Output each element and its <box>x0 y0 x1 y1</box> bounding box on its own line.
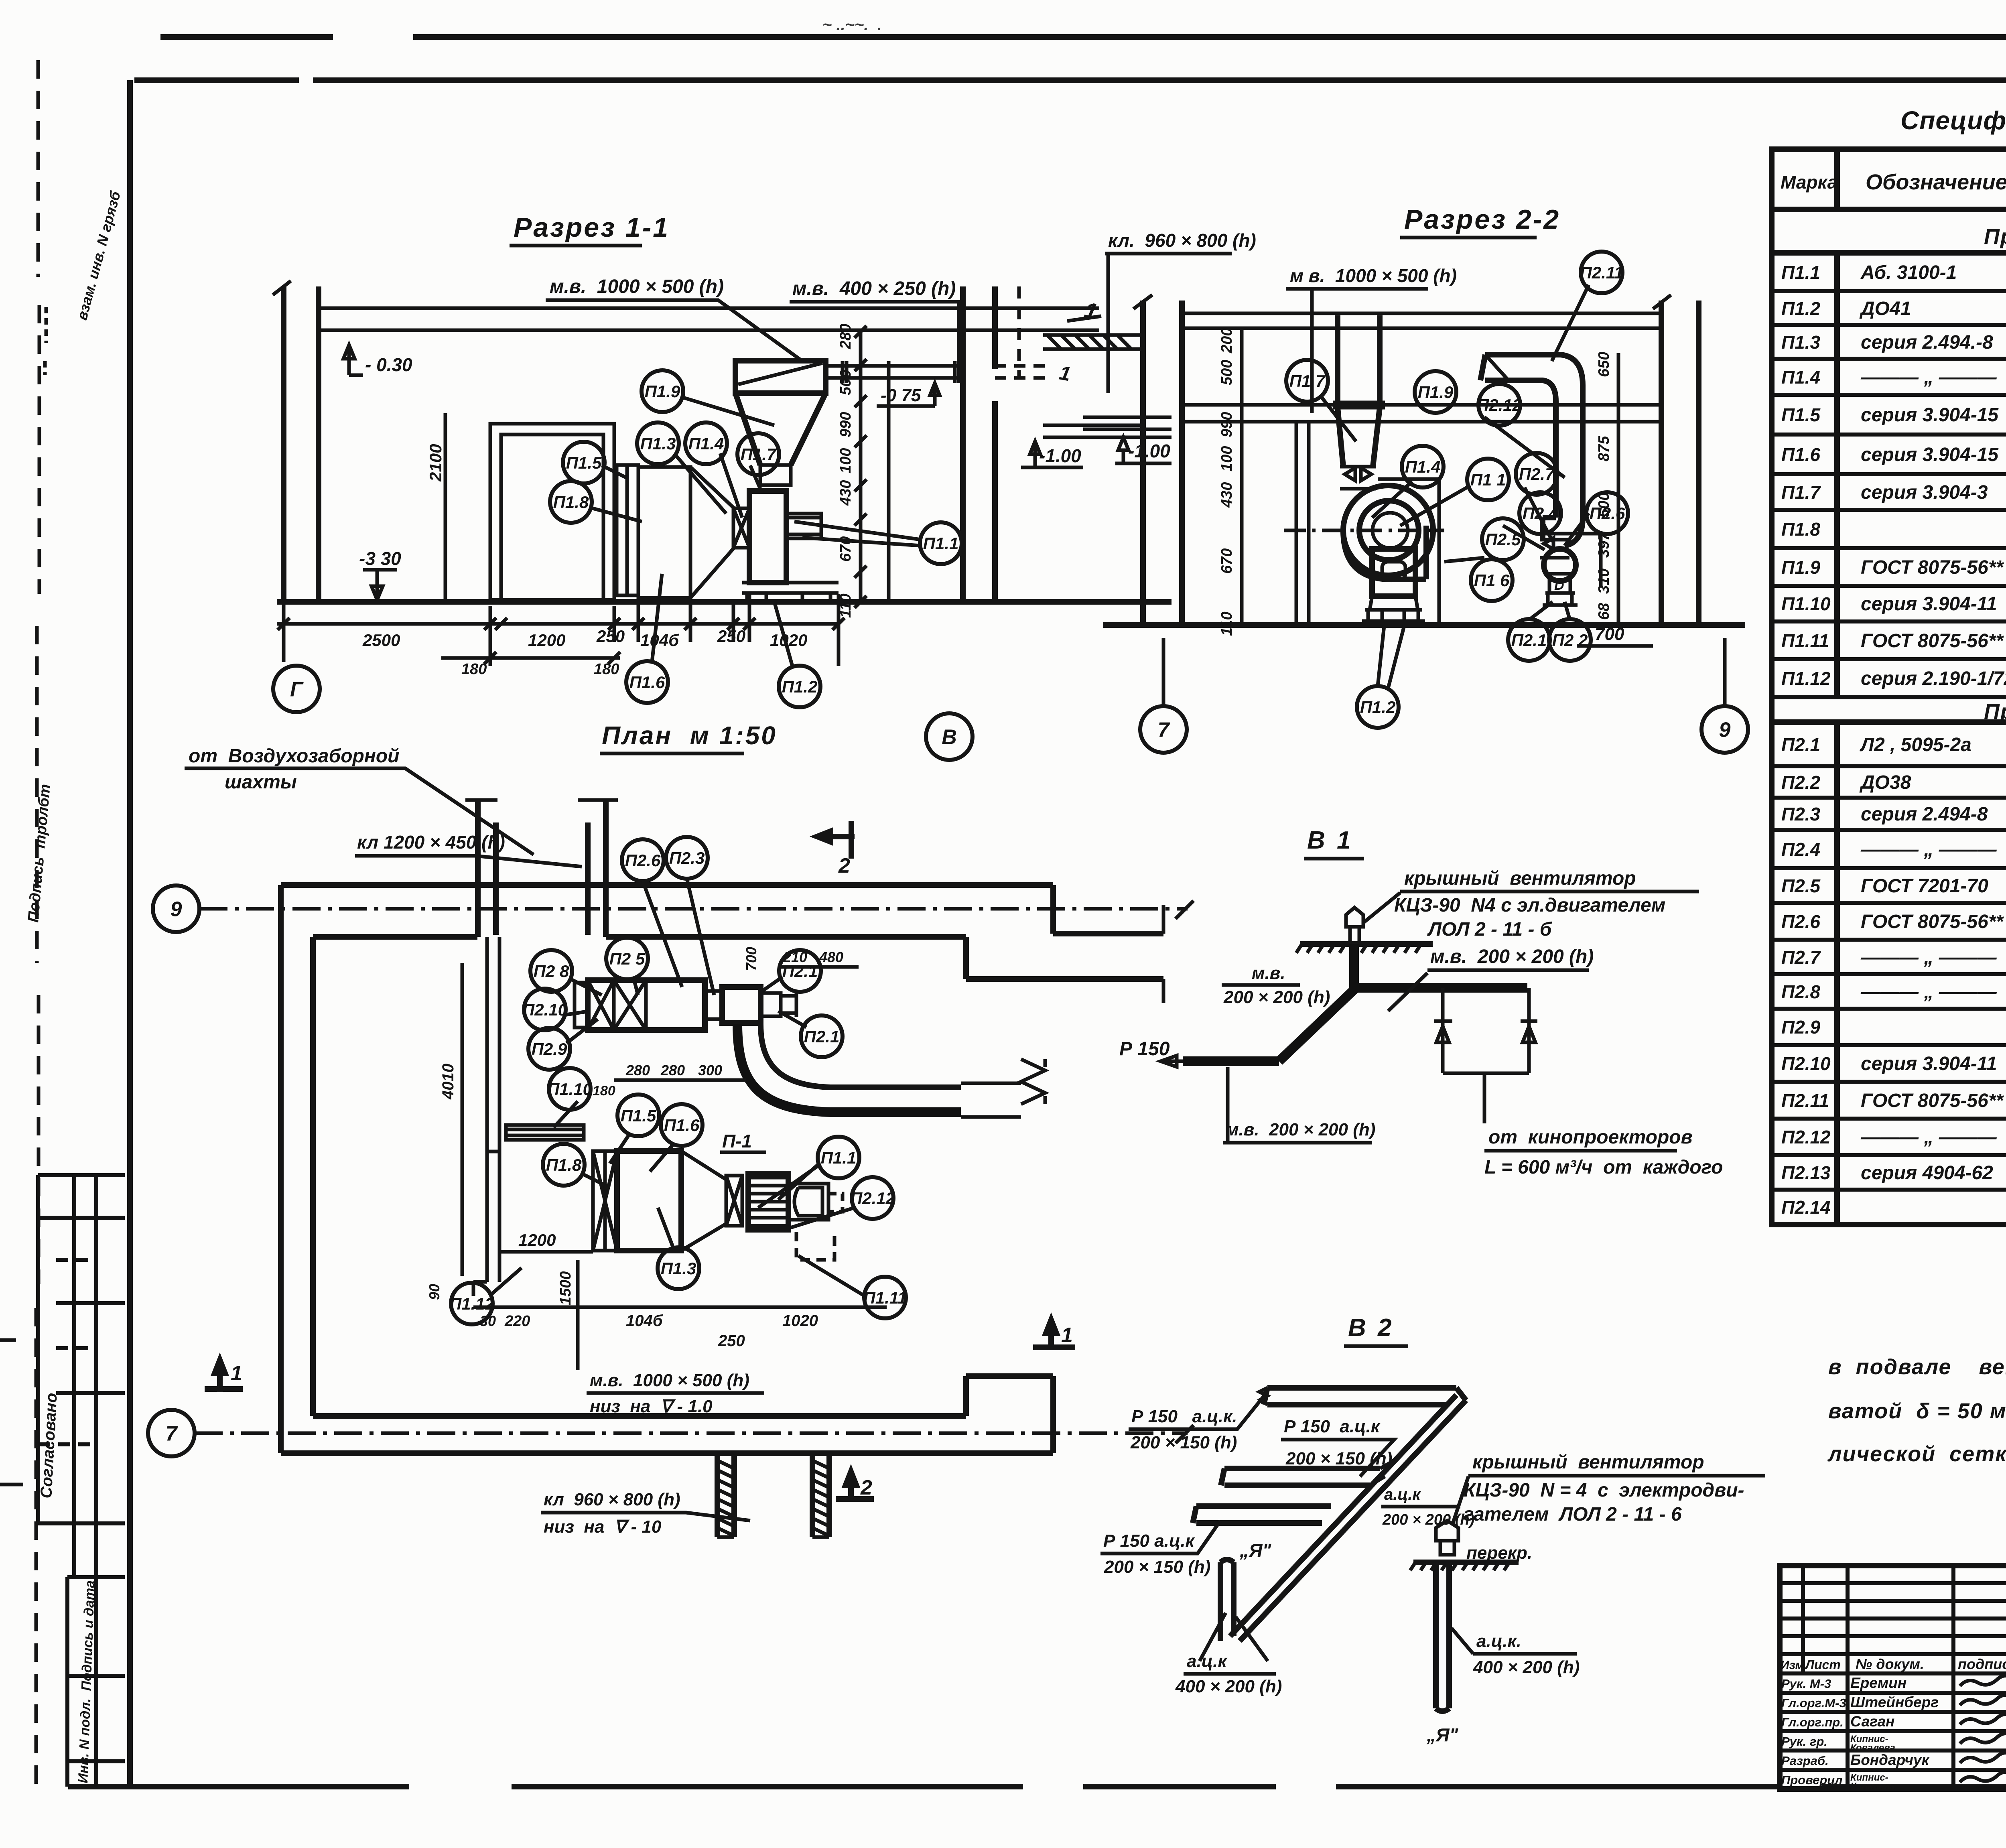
svg-text:700: 700 <box>743 947 759 971</box>
svg-text:——— „ ———: ——— „ ——— <box>1860 981 1997 1003</box>
svg-text:П1.9: П1.9 <box>645 382 680 401</box>
svg-text:280: 280 <box>837 324 854 349</box>
svg-text:210: 210 <box>783 949 807 965</box>
svg-text:300: 300 <box>698 1062 722 1078</box>
svg-text:220: 220 <box>504 1313 530 1330</box>
svg-text:кл. 960 × 800 (h): кл. 960 × 800 (h) <box>1108 230 1256 251</box>
svg-text:П1.2: П1.2 <box>782 677 818 696</box>
svg-text:400 × 200 (h): 400 × 200 (h) <box>1473 1657 1580 1677</box>
svg-text:П1.1: П1.1 <box>1781 262 1820 283</box>
svg-text:1020: 1020 <box>782 1312 818 1330</box>
svg-text:П2.12: П2.12 <box>850 1189 895 1208</box>
svg-text:430: 430 <box>1218 482 1235 508</box>
svg-text:200 × 150 (h): 200 × 150 (h) <box>1130 1433 1237 1452</box>
svg-text:990: 990 <box>837 412 854 437</box>
svg-text:П1.3: П1.3 <box>661 1259 696 1278</box>
svg-text:„Я": „Я" <box>1239 1540 1272 1561</box>
svg-text:лической сетке штукатуркой: лической сетке штукатуркой АЦП. <box>1827 1442 2006 1466</box>
svg-text:серия 3.904-11: серия 3.904-11 <box>1861 593 1997 615</box>
svg-text:кл 1200 × 450 (h): кл 1200 × 450 (h) <box>357 832 505 853</box>
svg-text:200 × 200 (h): 200 × 200 (h) <box>1223 987 1330 1007</box>
svg-text:П1.1: П1.1 <box>923 534 959 553</box>
svg-text:П2 5: П2 5 <box>609 949 645 968</box>
svg-text:П-1: П-1 <box>722 1131 752 1151</box>
svg-text:Г: Г <box>290 678 304 701</box>
svg-text:П2.11: П2.11 <box>1580 263 1624 282</box>
svg-text:в подвале венткамера об: в подвале венткамера оббивается минераль… <box>1828 1355 2006 1379</box>
svg-text:П1.6: П1.6 <box>664 1116 700 1135</box>
svg-text:Подпись тролбт: Подпись тролбт <box>25 784 54 923</box>
svg-text:П1.11: П1.11 <box>1781 630 1829 651</box>
svg-text:Саган: Саган <box>1850 1713 1894 1730</box>
svg-text:Ковалева: Ковалева <box>1850 1781 1895 1792</box>
svg-text:а.ц.к: а.ц.к <box>1384 1486 1421 1503</box>
svg-text:П1.5: П1.5 <box>1781 404 1821 425</box>
svg-text:180: 180 <box>593 1083 615 1099</box>
svg-text:250: 250 <box>718 1332 745 1350</box>
svg-text:9: 9 <box>171 898 182 921</box>
svg-text:480: 480 <box>819 949 843 965</box>
svg-text:500: 500 <box>1218 360 1235 385</box>
svg-text:670: 670 <box>1218 548 1235 574</box>
svg-text:250: 250 <box>596 627 625 646</box>
svg-text:200 × 150 (h): 200 × 150 (h) <box>1104 1557 1210 1577</box>
svg-text:Бондарчук: Бондарчук <box>1850 1752 1930 1768</box>
svg-text:П1.9: П1.9 <box>1418 383 1454 402</box>
svg-text:100: 100 <box>1218 446 1235 471</box>
svg-text:П1.6: П1.6 <box>629 673 665 692</box>
svg-text:Лист: Лист <box>1805 1657 1841 1672</box>
svg-text:1200: 1200 <box>518 1231 556 1249</box>
svg-text:П1.12: П1.12 <box>1781 668 1831 689</box>
svg-text:В: В <box>942 726 957 749</box>
svg-text:П1.12: П1.12 <box>449 1294 494 1313</box>
svg-text:1: 1 <box>231 1362 242 1385</box>
svg-text:Аб. 3100-1: Аб. 3100-1 <box>1860 262 1957 283</box>
svg-text:П1.5: П1.5 <box>621 1106 656 1125</box>
svg-text:КЦЗ-90 N = 4 с электродви-: КЦЗ-90 N = 4 с электродви- <box>1464 1480 1744 1501</box>
svg-text:430: 430 <box>837 480 854 506</box>
svg-text:104б: 104б <box>626 1312 663 1330</box>
svg-text:1: 1 <box>1061 1324 1073 1347</box>
svg-text:200 × 200 (h): 200 × 200 (h) <box>1382 1511 1474 1528</box>
svg-text:П2.12: П2.12 <box>1781 1127 1831 1147</box>
svg-text:ЛОЛ 2 - 11 - б: ЛОЛ 2 - 11 - б <box>1427 919 1552 940</box>
svg-text:310: 310 <box>1596 569 1612 594</box>
svg-text:П2.13: П2.13 <box>1781 1162 1831 1183</box>
svg-text:П2.14: П2.14 <box>1781 1197 1831 1218</box>
svg-text:от кинопроекторов: от кинопроекторов <box>1488 1127 1693 1148</box>
svg-text:- 0.30: - 0.30 <box>365 354 412 375</box>
svg-text:Обозначение: Обозначение <box>1866 170 2006 194</box>
svg-text:П1.10: П1.10 <box>547 1080 592 1099</box>
svg-text:серия 2.494.-8: серия 2.494.-8 <box>1861 332 1993 353</box>
svg-text:Марка: Марка <box>1781 172 1837 193</box>
svg-text:104б: 104б <box>640 631 679 650</box>
svg-text:7: 7 <box>1158 719 1170 742</box>
svg-text:ГОСТ 8075-56**: ГОСТ 8075-56** <box>1861 630 2004 652</box>
svg-text:Рук. гр.: Рук. гр. <box>1781 1734 1827 1748</box>
svg-text:П2.5: П2.5 <box>1781 875 1821 896</box>
svg-text:700: 700 <box>1595 624 1624 644</box>
svg-text:П1.5: П1.5 <box>566 453 602 472</box>
svg-text:280: 280 <box>660 1062 685 1078</box>
svg-text:кл 960 × 800 (h): кл 960 × 800 (h) <box>544 1490 680 1509</box>
svg-text:серия 3.904-15: серия 3.904-15 <box>1861 444 1999 465</box>
svg-text:ГОСТ 8075-56**: ГОСТ 8075-56** <box>1861 911 2004 932</box>
svg-text:1500: 1500 <box>557 1271 574 1305</box>
svg-text:м.в. 200 × 200 (h): м.в. 200 × 200 (h) <box>1226 1120 1375 1139</box>
svg-text:ДО41: ДО41 <box>1859 298 1911 319</box>
svg-text:Разрез 1-1: Разрез 1-1 <box>514 212 670 243</box>
svg-text:280: 280 <box>625 1062 650 1078</box>
svg-text:П2.1: П2.1 <box>1511 631 1547 650</box>
svg-text:400 × 200 (h): 400 × 200 (h) <box>1175 1677 1282 1696</box>
svg-text:гателем ЛОЛ 2 - 11 - 6: гателем ЛОЛ 2 - 11 - 6 <box>1464 1504 1682 1525</box>
svg-text:500: 500 <box>837 370 854 395</box>
svg-text:П1.7: П1.7 <box>741 445 777 464</box>
svg-text:Проверил: Проверил <box>1781 1773 1843 1787</box>
svg-text:П1.3: П1.3 <box>640 434 676 453</box>
svg-text:шахты: шахты <box>225 772 297 793</box>
svg-text:П2.1: П2.1 <box>804 1027 840 1046</box>
svg-text:——— „ ———: ——— „ ——— <box>1860 367 1997 388</box>
svg-text:П2.6: П2.6 <box>1781 911 1820 932</box>
svg-text:П2.2: П2.2 <box>1781 772 1820 793</box>
svg-text:П2.6: П2.6 <box>1590 504 1625 523</box>
svg-text:9: 9 <box>1719 719 1731 742</box>
svg-text:Гл.орг.М-3: Гл.орг.М-3 <box>1781 1696 1846 1710</box>
svg-text:П1.8: П1.8 <box>1781 519 1820 540</box>
svg-text:D: D <box>1554 578 1564 593</box>
svg-text:2: 2 <box>860 1476 872 1499</box>
svg-text:П2.12: П2.12 <box>1477 396 1522 414</box>
svg-text:Изм.: Изм. <box>1781 1659 1807 1672</box>
svg-text:200 × 150 (h): 200 × 150 (h) <box>1285 1449 1392 1468</box>
svg-text:П2.10: П2.10 <box>1781 1053 1831 1074</box>
svg-text:а.ц.к: а.ц.к <box>1187 1651 1228 1671</box>
svg-text:110: 110 <box>1218 611 1235 636</box>
svg-text:Приточная система П2: Приточная система П2 <box>1984 700 2006 724</box>
svg-text:П2.9: П2.9 <box>532 1040 567 1058</box>
svg-text:крышный вентилятор: крышный вентилятор <box>1404 868 1636 889</box>
svg-text:а.ц.к.: а.ц.к. <box>1476 1631 1521 1651</box>
svg-text:П2 8: П2 8 <box>534 962 569 981</box>
svg-text:П1.4: П1.4 <box>688 434 724 453</box>
svg-text:КЦЗ-90 N4 с эл.двигателем: КЦЗ-90 N4 с эл.двигателем <box>1394 895 1665 916</box>
svg-text:~ ..~~. .: ~ ..~~. . <box>822 16 882 34</box>
svg-text:подпись: подпись <box>1958 1656 2006 1672</box>
svg-text:990: 990 <box>1218 412 1235 437</box>
svg-text:200: 200 <box>1218 328 1235 353</box>
svg-text:-0 75: -0 75 <box>881 386 921 405</box>
svg-text:-3 30: -3 30 <box>359 548 401 569</box>
svg-text:ГОСТ 8075-56**: ГОСТ 8075-56** <box>1861 1090 2004 1111</box>
svg-text:П1.7: П1.7 <box>1781 482 1821 503</box>
svg-text:П1.1: П1.1 <box>821 1148 857 1167</box>
svg-text:П2.7: П2.7 <box>1781 947 1821 968</box>
svg-text:м.в. 1000 × 500 (h): м.в. 1000 × 500 (h) <box>590 1371 749 1390</box>
svg-text:100: 100 <box>837 448 854 473</box>
svg-text:180: 180 <box>594 661 619 678</box>
svg-text:Еремин: Еремин <box>1850 1675 1907 1691</box>
svg-text:Штейнберг: Штейнберг <box>1850 1694 1939 1710</box>
svg-text:взам. инв. N грязб: взам. инв. N грязб <box>73 189 124 322</box>
svg-text:серия 2.494-8: серия 2.494-8 <box>1861 804 1988 825</box>
svg-text:П2.3: П2.3 <box>669 849 705 867</box>
svg-text:П1.4: П1.4 <box>1405 457 1441 476</box>
svg-text:250: 250 <box>717 627 745 646</box>
svg-text:2: 2 <box>838 854 850 877</box>
svg-text:Л2 , 5095-2а: Л2 , 5095-2а <box>1860 734 1971 755</box>
svg-text:——— „ ———: ——— „ ——— <box>1860 947 1997 968</box>
svg-text:П2.4: П2.4 <box>1781 839 1820 860</box>
svg-text:П1.8: П1.8 <box>546 1156 582 1174</box>
svg-text:1200: 1200 <box>528 631 565 650</box>
svg-text:-1.00: -1.00 <box>1039 445 1081 466</box>
svg-text:м в. 1000 × 500 (h): м в. 1000 × 500 (h) <box>1290 265 1457 286</box>
svg-text:от Воздухозаборной: от Воздухозаборной <box>189 745 399 767</box>
svg-text:серия 3.904-15: серия 3.904-15 <box>1861 404 1999 426</box>
svg-text:875: 875 <box>1596 436 1612 461</box>
svg-text:П1 7: П1 7 <box>1289 372 1326 390</box>
svg-text:Р 150 а.ц.к: Р 150 а.ц.к <box>1284 1417 1381 1436</box>
svg-text:68: 68 <box>1596 603 1612 620</box>
svg-text:П2.6: П2.6 <box>625 851 661 870</box>
svg-text:Разрез 2-2: Разрез 2-2 <box>1404 204 1560 235</box>
svg-text:П1.4: П1.4 <box>1781 367 1820 388</box>
svg-text:Р 150 а.ц.к: Р 150 а.ц.к <box>1103 1531 1196 1551</box>
svg-text:ватой δ = 50 мм и оштукат: ватой δ = 50 мм и оштукатуривается по ме… <box>1828 1399 2006 1423</box>
svg-text:2100: 2100 <box>426 444 445 482</box>
svg-text:7: 7 <box>166 1422 178 1446</box>
svg-text:650: 650 <box>1596 352 1612 377</box>
svg-text:низ на ∇ - 1.0: низ на ∇ - 1.0 <box>590 1397 713 1416</box>
svg-text:2500: 2500 <box>362 631 400 650</box>
svg-text:П1.3: П1.3 <box>1781 332 1820 353</box>
svg-text:——— „ ———: ——— „ ——— <box>1860 839 1997 860</box>
svg-text:ГОСТ 8075-56**: ГОСТ 8075-56** <box>1861 557 2004 578</box>
svg-text:Р 150 а.ц.к.: Р 150 а.ц.к. <box>1131 1407 1237 1426</box>
svg-text:Спецификация материалов: Спецификация материалов <box>1900 106 2006 135</box>
svg-text:Рук. М-3: Рук. М-3 <box>1781 1677 1831 1691</box>
svg-text:серия 3.904-3: серия 3.904-3 <box>1861 482 1988 503</box>
svg-text:м.в. 1000 × 500 (h): м.в. 1000 × 500 (h) <box>550 276 724 297</box>
svg-text:Разраб.: Разраб. <box>1781 1754 1829 1768</box>
svg-text:Приточная система П1 тип: Приточная система П1 тип 1Пк10 <box>1984 225 2006 249</box>
svg-text:План м 1:50: План м 1:50 <box>602 721 777 750</box>
svg-text:„Я": „Я" <box>1426 1724 1459 1745</box>
svg-text:серия 3.904-11: серия 3.904-11 <box>1861 1053 1997 1074</box>
svg-text:П1.6: П1.6 <box>1781 444 1820 465</box>
svg-text:4010: 4010 <box>439 1064 457 1100</box>
svg-text:П2.8: П2.8 <box>1781 981 1820 1002</box>
svg-text:-1.00: -1.00 <box>1128 441 1170 461</box>
svg-text:П2.3: П2.3 <box>1781 804 1820 824</box>
svg-text:В 2: В 2 <box>1348 1314 1394 1342</box>
svg-text:П1.8: П1.8 <box>553 493 589 512</box>
svg-text:П1.2: П1.2 <box>1781 298 1820 319</box>
svg-text:П1.11: П1.11 <box>863 1288 907 1307</box>
svg-text:м.в. 200 × 200 (h): м.в. 200 × 200 (h) <box>1430 946 1594 967</box>
svg-text:П1.9: П1.9 <box>1781 557 1820 578</box>
svg-text:м.в.: м.в. <box>1252 963 1285 983</box>
svg-text:ДО38: ДО38 <box>1859 772 1911 793</box>
svg-text:П1 1: П1 1 <box>1470 470 1506 489</box>
svg-text:——— „ ———: ——— „ ——— <box>1860 1127 1997 1148</box>
svg-text:П2 2: П2 2 <box>1552 631 1588 650</box>
svg-text:180: 180 <box>461 661 487 678</box>
svg-text:П1 6: П1 6 <box>1474 571 1510 590</box>
svg-text:1: 1 <box>1058 361 1072 386</box>
svg-text:П2.9: П2.9 <box>1781 1017 1820 1038</box>
svg-text:№ докум.: № докум. <box>1856 1656 1924 1672</box>
svg-text:П2.11: П2.11 <box>1781 1090 1829 1111</box>
svg-text:П1.10: П1.10 <box>1781 593 1831 614</box>
svg-text:Гл.орг.пр.: Гл.орг.пр. <box>1781 1715 1844 1729</box>
svg-text:ГОСТ 7201-70: ГОСТ 7201-70 <box>1861 875 1988 897</box>
svg-text:П2.10: П2.10 <box>522 1000 567 1019</box>
svg-text:низ на ∇ - 10: низ на ∇ - 10 <box>544 1517 662 1537</box>
svg-text:L = 600 м³/ч от каждого: L = 600 м³/ч от каждого <box>1484 1157 1723 1178</box>
svg-text:Р 150: Р 150 <box>1119 1038 1170 1060</box>
svg-text:П1.2: П1.2 <box>1360 698 1396 717</box>
svg-text:серия 2.190-1/72: серия 2.190-1/72 <box>1861 668 2006 689</box>
svg-text:П2.1: П2.1 <box>1781 734 1820 755</box>
svg-text:90: 90 <box>426 1284 443 1300</box>
svg-text:крышный вентилятор: крышный вентилятор <box>1472 1452 1704 1473</box>
svg-text:серия 4904-62: серия 4904-62 <box>1861 1162 1993 1184</box>
svg-text:В 1: В 1 <box>1307 827 1353 854</box>
svg-text:м.в. 400 × 250 (h): м.в. 400 × 250 (h) <box>792 278 956 299</box>
